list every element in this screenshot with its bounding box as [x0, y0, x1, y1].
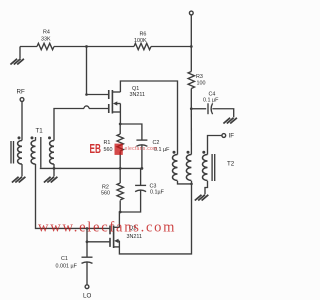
- svg-text:R4: R4: [43, 30, 50, 36]
- svg-text:T1: T1: [36, 128, 44, 135]
- ground G1 (top-left): [10, 47, 24, 65]
- wire Q1 drain to T2 winding A: [120, 81, 177, 155]
- svg-text:T2: T2: [227, 161, 235, 168]
- winding 2 top stub: [35, 137, 37, 141]
- svg-text:EB: EB: [90, 141, 102, 156]
- resistor R6 100K: [134, 43, 151, 49]
- wire winding 1 bottom to ground G2: [21, 164, 23, 176]
- node A junction: [85, 45, 88, 48]
- capacitor C1 0.001uF: [82, 257, 93, 263]
- resistor R1 560 (with leads): [119, 124, 121, 134]
- wire Q2 source to T2 return: [119, 181, 191, 254]
- winding 1 phasing dot: [18, 136, 21, 139]
- wire C2 to main line: [141, 145, 143, 168]
- wire RF to winding 1: [21, 101, 23, 140]
- capacitor C2 0.1uF: [136, 140, 147, 146]
- wire to Q1 gate2: [87, 94, 109, 96]
- wire C1 to LO terminal: [86, 262, 88, 285]
- node W3 bottom junction: [53, 167, 56, 170]
- RF terminal: [20, 98, 24, 102]
- wire node R2 bottom to Q2 drain: [118, 212, 121, 227]
- wire ground to R4: [20, 46, 37, 48]
- svg-text:100: 100: [197, 81, 206, 87]
- svg-text:100K: 100K: [134, 38, 147, 44]
- wire T1 W2 bottom to LO line: [36, 164, 110, 228]
- wire winding C top to IF: [208, 136, 222, 155]
- transistor Q1 3N211: [109, 90, 121, 114]
- supply terminal: [189, 11, 193, 15]
- ground G4: [223, 118, 237, 124]
- ground G3: [44, 177, 58, 183]
- node S1 junction: [119, 123, 122, 126]
- svg-text:C2: C2: [153, 140, 160, 146]
- wire hop: [84, 106, 89, 109]
- transistor Q2 3N211: [110, 226, 119, 249]
- transformer T1 core right: [40, 137, 42, 168]
- winding 3 phasing dot: [48, 136, 51, 139]
- wire T2 winding A bottom step: [178, 181, 192, 184]
- svg-text:3N211: 3N211: [130, 92, 145, 98]
- wire junction to C1: [86, 242, 88, 257]
- resistor R3 100: [188, 72, 194, 89]
- transformer T1 winding 2: [31, 141, 35, 165]
- wire C4 to ground G4: [212, 109, 233, 118]
- capacitor C4 0.1uF: [208, 103, 213, 114]
- transformer T1 winding 3: [50, 141, 54, 165]
- svg-text:560: 560: [104, 147, 113, 153]
- winding B phasing dot: [187, 151, 190, 154]
- node LO gate junction: [86, 240, 89, 243]
- svg-text:elecfans.com: elecfans.com: [125, 146, 158, 152]
- node C junction: [190, 107, 193, 110]
- transformer T2 winding B: [186, 155, 191, 181]
- node C2/C3 junction: [141, 167, 144, 170]
- transformer T1 winding 1: [18, 141, 22, 165]
- svg-text:IF: IF: [229, 133, 235, 140]
- wire R6 to node B: [151, 46, 191, 48]
- wire node B to R3: [190, 47, 192, 72]
- svg-text:0.001 µF: 0.001 µF: [56, 264, 78, 270]
- wire supply to node B: [190, 15, 192, 47]
- capacitor C3 0.1uF (with leads): [140, 168, 142, 185]
- winding A phasing dot: [173, 151, 176, 154]
- wire R4 to node A: [54, 46, 87, 48]
- wire winding 3 bottom to ground G3: [53, 164, 55, 176]
- resistor R4 33K: [37, 43, 54, 49]
- T2 core: [211, 154, 213, 181]
- wire node A down to Q1 gate2: [86, 47, 88, 95]
- LO terminal: [85, 285, 89, 289]
- winding 2 phasing dot: [31, 136, 34, 139]
- watermark EB logo: [90, 141, 158, 156]
- wire winding C bottom to ground G5: [205, 181, 208, 195]
- svg-text:0.1µF: 0.1µF: [150, 190, 165, 196]
- svg-text:C1: C1: [61, 256, 68, 262]
- transformer T2 winding C: [203, 155, 208, 181]
- ground G2: [12, 177, 26, 183]
- svg-text:33K: 33K: [41, 37, 51, 43]
- svg-text:0.1 µF: 0.1 µF: [203, 98, 219, 104]
- wire node A to R6: [87, 46, 135, 48]
- wire node C to C4: [191, 108, 206, 110]
- transformer T2 winding A: [173, 155, 178, 181]
- svg-text:RF: RF: [17, 89, 25, 96]
- node R1/R2 junction: [119, 167, 122, 170]
- op wire T1 W3 to Q1 gate1 with hop over: [54, 109, 84, 141]
- svg-text:R6: R6: [140, 32, 147, 38]
- winding C phasing dot: [202, 151, 205, 154]
- IF terminal: [222, 134, 226, 138]
- wire Q1 source down to node S1: [119, 104, 121, 125]
- node at gate2 corner: [85, 93, 88, 96]
- node LO top junction: [86, 227, 89, 230]
- wire node C down to T2 winding B: [190, 109, 192, 155]
- node T2 step junction: [190, 183, 193, 186]
- ground G5: [195, 195, 209, 201]
- transformer T1 core left: [10, 141, 12, 164]
- wire hop to gate1: [89, 108, 108, 110]
- node R2/C3 bottom junction: [119, 211, 122, 214]
- wire R3 to node C: [190, 89, 192, 109]
- main horizontal wire (bias line): [40, 167, 142, 169]
- svg-text:R3: R3: [196, 74, 203, 80]
- wire to Q2 gate1: [87, 241, 110, 243]
- svg-text:www.elecfans.com: www.elecfans.com: [38, 220, 176, 236]
- svg-text:560: 560: [101, 191, 110, 197]
- resistor R2 560 (with leads): [119, 168, 121, 183]
- wire node S1 to C2: [120, 124, 142, 140]
- wire junction down: [86, 228, 88, 241]
- node B junction: [190, 45, 193, 48]
- svg-text:R1: R1: [104, 140, 111, 146]
- svg-text:LO: LO: [83, 293, 91, 300]
